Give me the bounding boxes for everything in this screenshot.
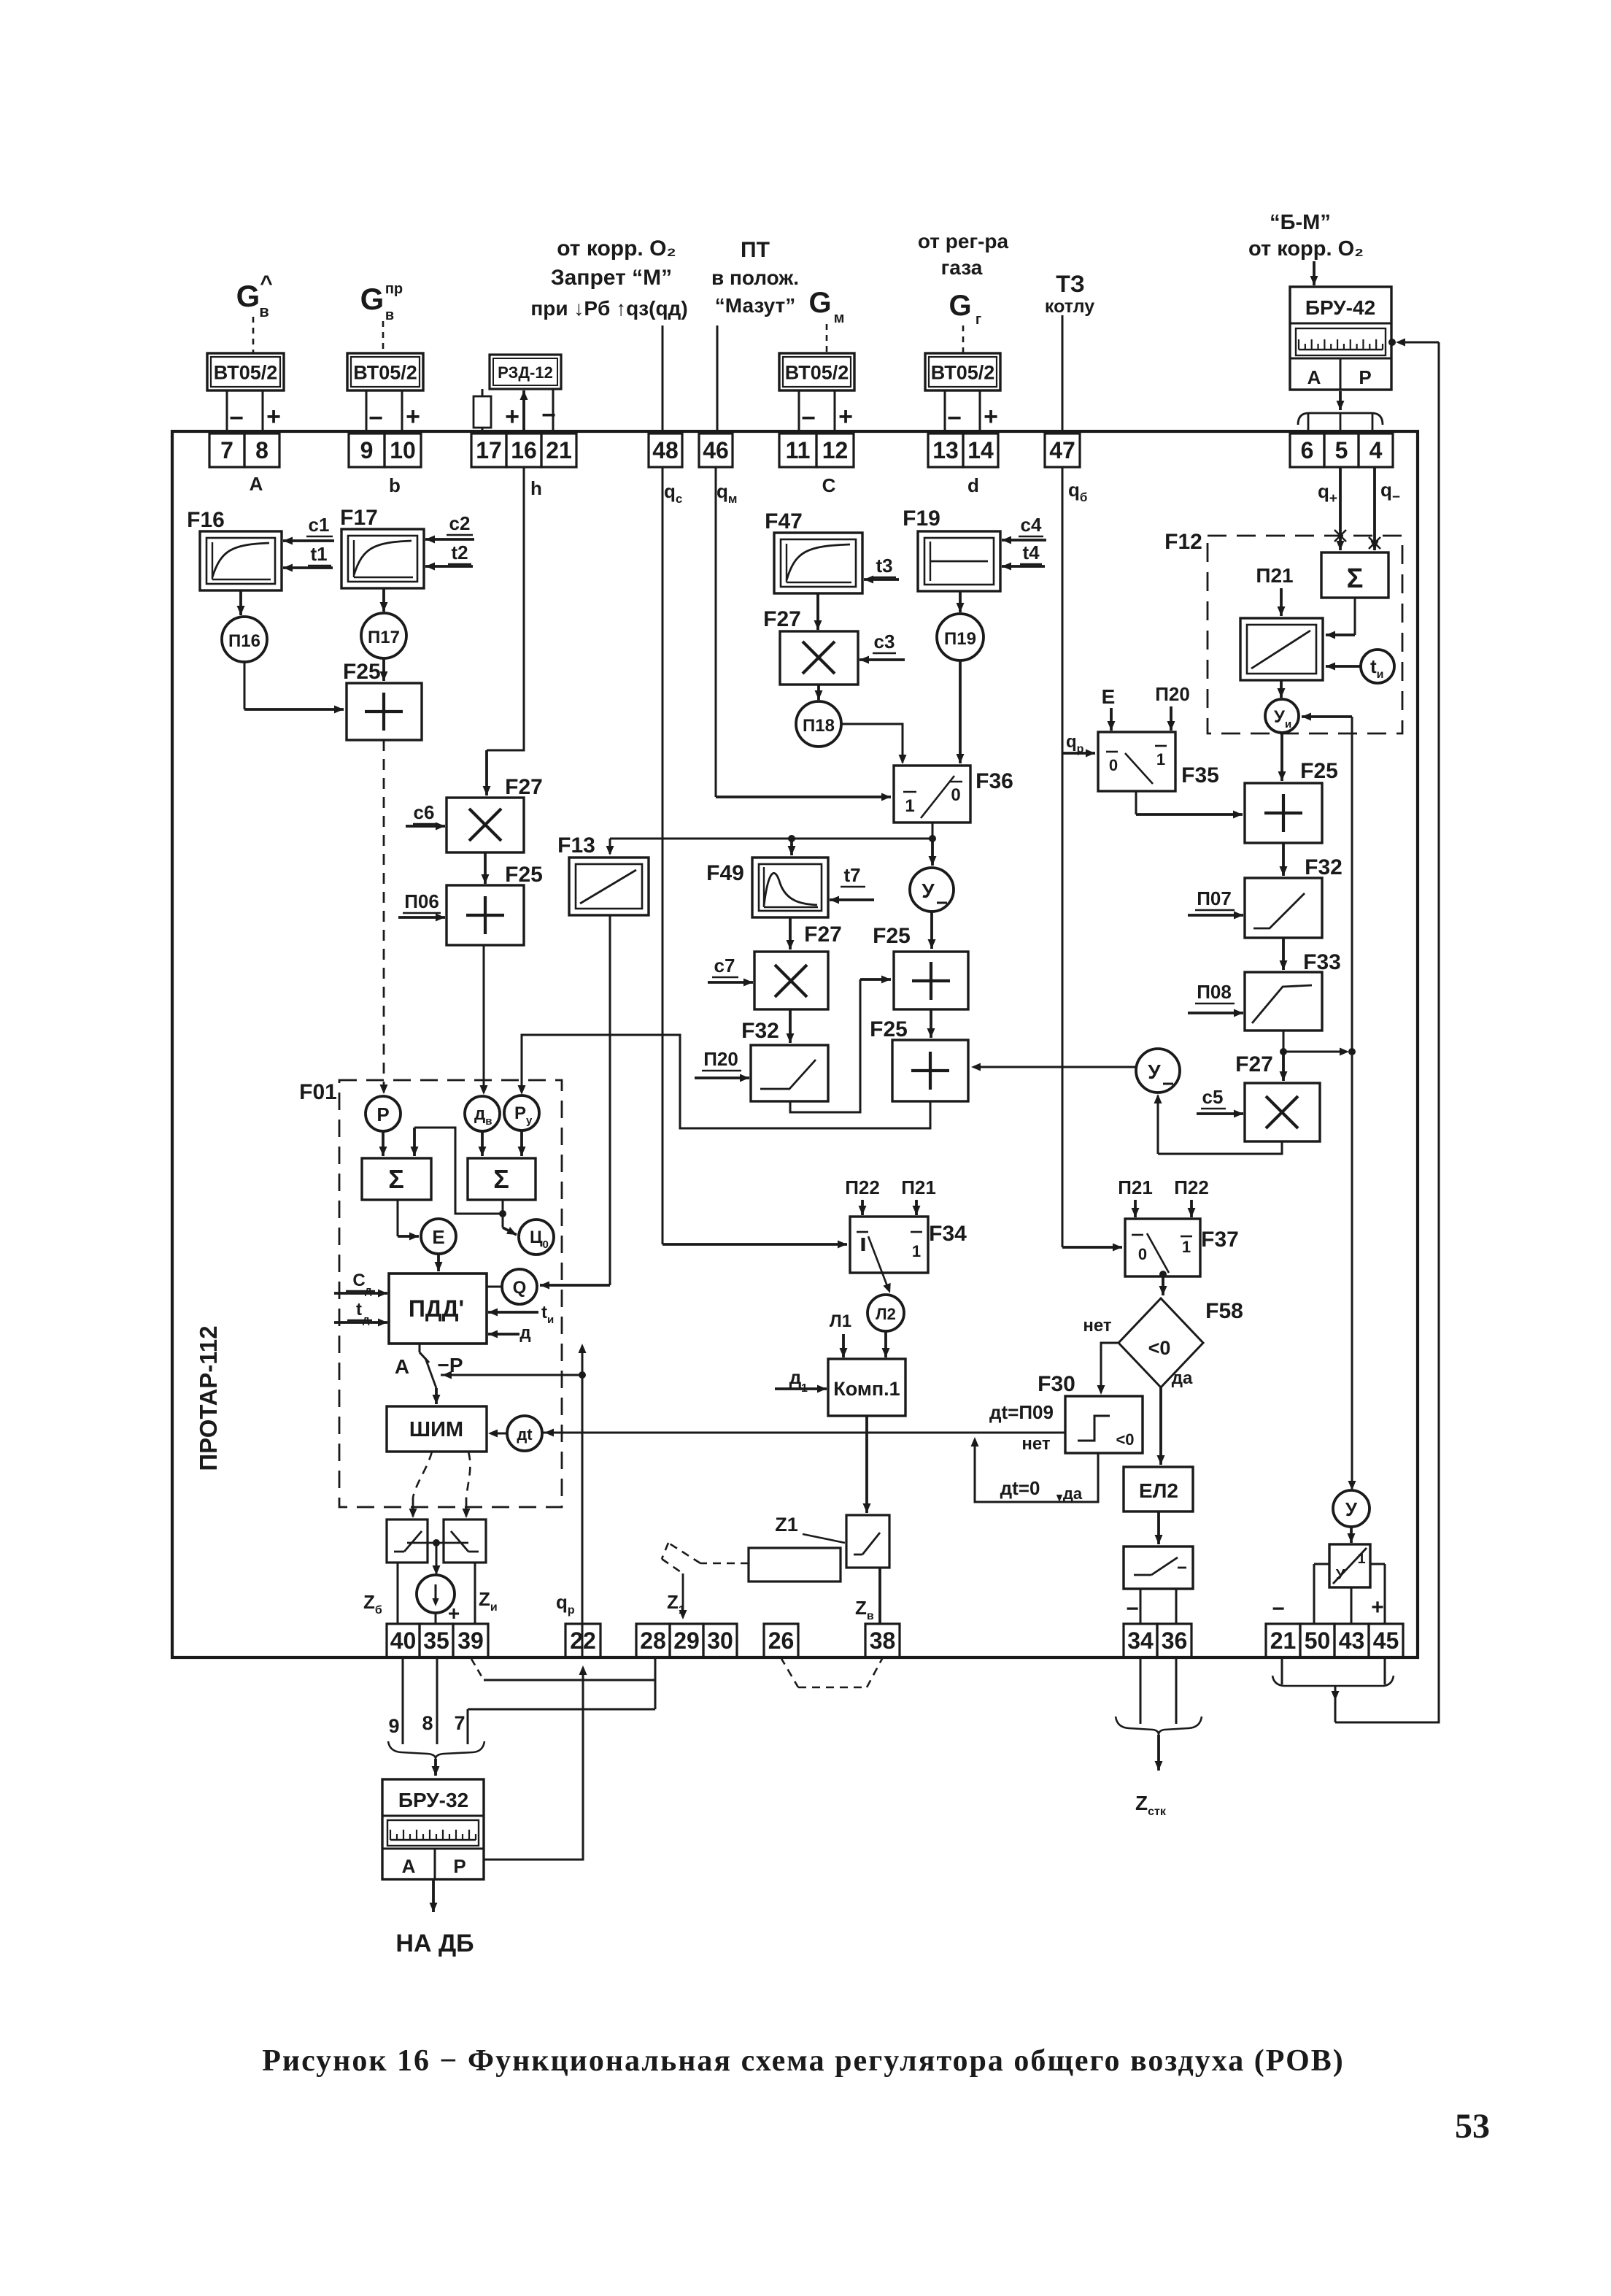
svg-text:8: 8 [255, 437, 268, 463]
svg-text:F13: F13 [557, 833, 595, 858]
svg-text:Σ: Σ [388, 1164, 404, 1194]
svg-text:1: 1 [1357, 1551, 1365, 1567]
svg-text:П17: П17 [368, 628, 400, 647]
svg-text:Z1: Z1 [775, 1514, 798, 1536]
svg-text:д: д [363, 1314, 370, 1326]
svg-text:Е: Е [432, 1226, 444, 1248]
svg-text:F16: F16 [187, 508, 225, 532]
svg-text:46: 46 [703, 437, 729, 463]
svg-text:“Мазут”: “Мазут” [715, 294, 795, 317]
svg-text:28: 28 [640, 1627, 666, 1654]
svg-text:F27: F27 [763, 607, 801, 631]
svg-text:У: У [1336, 1567, 1345, 1583]
svg-text:У: У [922, 879, 935, 902]
svg-text:П19: П19 [944, 629, 976, 649]
svg-text:А: А [402, 1855, 416, 1877]
svg-text:29: 29 [673, 1627, 700, 1654]
svg-text:F27: F27 [804, 922, 842, 947]
svg-text:F25: F25 [343, 660, 381, 684]
svg-text:F34: F34 [929, 1222, 967, 1246]
svg-text:h: h [530, 477, 542, 499]
svg-text:Σ: Σ [493, 1164, 509, 1194]
svg-text:16: 16 [511, 437, 537, 463]
svg-text:ШИМ: ШИМ [409, 1418, 463, 1441]
svg-text:t2: t2 [451, 542, 468, 563]
svg-text:НА ДБ: НА ДБ [395, 1930, 474, 1957]
svg-text:Комп.1: Комп.1 [833, 1378, 900, 1400]
svg-text:53: 53 [1455, 2107, 1490, 2146]
svg-text:П21: П21 [1256, 564, 1293, 587]
svg-text:35: 35 [423, 1627, 449, 1654]
svg-text:c1: c1 [309, 514, 330, 536]
svg-text:1: 1 [1182, 1238, 1191, 1256]
svg-text:G: G [949, 290, 971, 322]
svg-text:43: 43 [1339, 1627, 1365, 1654]
svg-text:−: − [1272, 1597, 1285, 1621]
svg-text:П22: П22 [845, 1176, 880, 1198]
svg-text:А: А [250, 473, 263, 495]
svg-text:Запрет “М”: Запрет “М” [551, 266, 672, 290]
svg-text:c3: c3 [874, 631, 895, 652]
svg-text:от корр. О₂: от корр. О₂ [1248, 237, 1364, 261]
svg-text:С: С [352, 1271, 365, 1290]
svg-text:0: 0 [951, 785, 960, 805]
svg-text:6: 6 [1301, 437, 1314, 463]
svg-text:F35: F35 [1181, 763, 1219, 787]
svg-text:П20: П20 [703, 1048, 738, 1070]
svg-text:+: + [448, 1602, 460, 1625]
svg-text:в: в [259, 302, 269, 320]
svg-text:д: д [519, 1323, 530, 1343]
svg-text:12: 12 [822, 437, 849, 463]
svg-text:−: − [368, 404, 383, 432]
svg-text:9: 9 [360, 437, 374, 463]
svg-text:0: 0 [1138, 1245, 1147, 1263]
svg-text:нет: нет [1083, 1316, 1112, 1336]
svg-text:Р: Р [453, 1855, 465, 1877]
svg-text:А: А [1307, 366, 1321, 388]
svg-text:13: 13 [932, 437, 959, 463]
svg-text:F27: F27 [505, 775, 543, 799]
svg-text:Л2: Л2 [876, 1305, 896, 1323]
svg-text:G: G [808, 287, 831, 319]
svg-text:ПТ: ПТ [741, 238, 770, 262]
svg-text:−: − [1126, 1597, 1139, 1621]
svg-text:F47: F47 [765, 509, 803, 533]
svg-text:У: У [1148, 1060, 1161, 1083]
svg-text:П18: П18 [803, 716, 835, 736]
svg-text:45: 45 [1373, 1627, 1399, 1654]
svg-text:П21: П21 [1118, 1176, 1153, 1198]
svg-text:1: 1 [912, 1242, 921, 1260]
svg-text:д: д [789, 1366, 802, 1388]
svg-text:34: 34 [1127, 1627, 1154, 1654]
svg-text:ПДД': ПДД' [409, 1295, 464, 1322]
svg-text:РЗД-12: РЗД-12 [498, 363, 553, 382]
svg-text:c7: c7 [714, 955, 735, 976]
svg-text:П07: П07 [1197, 887, 1232, 909]
svg-text:А: А [395, 1355, 409, 1378]
svg-text:П22: П22 [1174, 1176, 1209, 1198]
svg-text:дt=П09: дt=П09 [989, 1401, 1054, 1423]
svg-text:8: 8 [422, 1712, 433, 1734]
svg-text:47: 47 [1049, 437, 1075, 463]
svg-text:+: + [406, 403, 420, 431]
svg-text:36: 36 [1162, 1627, 1188, 1654]
svg-text:П08: П08 [1197, 981, 1232, 1003]
svg-text:F25: F25 [505, 863, 543, 887]
svg-text:F25: F25 [1300, 759, 1338, 783]
svg-text:9: 9 [388, 1715, 399, 1737]
svg-text:26: 26 [768, 1627, 795, 1654]
svg-text:Р: Р [376, 1103, 389, 1125]
svg-text:Рисунок 16 − Функциональная сх: Рисунок 16 − Функциональная схема регуля… [262, 2044, 1345, 2078]
svg-text:c6: c6 [414, 801, 435, 823]
svg-text:G: G [360, 282, 385, 316]
svg-text:7: 7 [454, 1712, 465, 1734]
svg-text:ВТ05/2: ВТ05/2 [931, 362, 995, 384]
svg-text:в полож.: в полож. [711, 266, 799, 289]
svg-text:t1: t1 [310, 543, 327, 565]
svg-text:+: + [1371, 1595, 1384, 1619]
svg-text:F01: F01 [299, 1080, 337, 1104]
svg-text:22: 22 [570, 1627, 596, 1654]
svg-text:П20: П20 [1155, 683, 1190, 705]
svg-text:газа: газа [941, 256, 983, 279]
svg-text:G: G [236, 279, 260, 313]
svg-text:Р: Р [1359, 366, 1371, 388]
svg-text:д: д [365, 1284, 372, 1297]
svg-text:0: 0 [1109, 756, 1118, 774]
svg-text:У: У [1345, 1498, 1358, 1520]
svg-text:F30: F30 [1038, 1372, 1075, 1396]
svg-text:г: г [976, 312, 981, 328]
svg-text:ТЗ: ТЗ [1056, 271, 1085, 297]
svg-text:F49: F49 [706, 861, 744, 885]
svg-text:c2: c2 [449, 512, 471, 534]
svg-text:50: 50 [1305, 1627, 1331, 1654]
svg-text:4: 4 [1369, 437, 1383, 463]
svg-text:F27: F27 [1235, 1052, 1273, 1076]
svg-text:1: 1 [905, 796, 914, 816]
svg-text:от рег-ра: от рег-ра [918, 230, 1009, 253]
svg-text:П06: П06 [404, 890, 439, 912]
svg-text:48: 48 [652, 437, 679, 463]
svg-text:+: + [984, 403, 998, 431]
svg-text:F32: F32 [741, 1019, 779, 1043]
svg-text:<0: <0 [1148, 1337, 1171, 1359]
svg-text:+: + [266, 403, 281, 431]
svg-text:F36: F36 [976, 769, 1013, 793]
svg-text:ПРОТАР-112: ПРОТАР-112 [195, 1325, 222, 1471]
svg-text:пр: пр [385, 281, 403, 297]
svg-text:при ↓Рб ↑qз(qд): при ↓Рб ↑qз(qд) [530, 297, 687, 320]
svg-text:21: 21 [546, 437, 572, 463]
svg-text:t7: t7 [843, 864, 860, 886]
svg-text:П16: П16 [228, 631, 260, 651]
svg-text:котлу: котлу [1045, 296, 1094, 317]
svg-text:40: 40 [390, 1627, 417, 1654]
svg-text:<0: <0 [1116, 1430, 1134, 1449]
svg-text:С: С [822, 474, 836, 496]
svg-text:“Б-М”: “Б-М” [1270, 211, 1331, 234]
svg-text:t4: t4 [1022, 542, 1040, 563]
svg-text:F25: F25 [873, 924, 911, 948]
svg-text:39: 39 [457, 1627, 484, 1654]
svg-text:F33: F33 [1303, 950, 1341, 974]
svg-text:нет: нет [1021, 1434, 1051, 1454]
svg-text:14: 14 [967, 437, 994, 463]
svg-text:21: 21 [1270, 1627, 1297, 1654]
svg-text:t3: t3 [876, 555, 892, 577]
svg-text:в: в [385, 307, 394, 323]
svg-text:F32: F32 [1305, 855, 1342, 879]
svg-text:F12: F12 [1164, 530, 1202, 554]
svg-text:ВТ05/2: ВТ05/2 [785, 362, 849, 384]
svg-text:Σ: Σ [1347, 563, 1364, 594]
svg-text:F17: F17 [340, 506, 378, 530]
svg-text:ВТ05/2: ВТ05/2 [214, 362, 278, 384]
svg-text:F37: F37 [1201, 1228, 1239, 1252]
svg-text:F19: F19 [903, 506, 940, 531]
svg-text:t: t [356, 1300, 362, 1320]
svg-text:c5: c5 [1202, 1086, 1224, 1108]
svg-text:17: 17 [476, 437, 502, 463]
svg-text:b: b [389, 474, 401, 496]
svg-text:F58: F58 [1205, 1299, 1243, 1323]
svg-text:7: 7 [220, 437, 233, 463]
svg-text:от корр. О₂: от корр. О₂ [557, 236, 676, 261]
svg-text:ЕЛ2: ЕЛ2 [1139, 1479, 1178, 1502]
svg-text:да: да [1172, 1368, 1193, 1388]
svg-text:П21: П21 [901, 1176, 936, 1198]
svg-text:дt=0: дt=0 [1000, 1477, 1040, 1499]
svg-text:38: 38 [870, 1627, 896, 1654]
svg-text:+: + [505, 403, 519, 431]
svg-text:ВТ05/2: ВТ05/2 [353, 362, 417, 384]
svg-text:1: 1 [1156, 750, 1165, 768]
svg-text:5: 5 [1335, 437, 1348, 463]
svg-text:да: да [1063, 1484, 1083, 1503]
svg-text:c4: c4 [1021, 514, 1042, 536]
svg-text:^: ^ [260, 271, 273, 296]
svg-text:10: 10 [390, 437, 416, 463]
svg-text:БРУ-32: БРУ-32 [398, 1789, 468, 1811]
svg-text:−: − [801, 404, 816, 432]
svg-text:БРУ-42: БРУ-42 [1305, 296, 1375, 319]
svg-text:−: − [229, 404, 244, 432]
svg-text:дt: дt [517, 1425, 533, 1444]
svg-text:F25: F25 [870, 1017, 908, 1041]
svg-text:−: − [947, 404, 962, 432]
svg-text:d: d [967, 474, 979, 496]
svg-text:30: 30 [707, 1627, 733, 1654]
svg-text:11: 11 [786, 437, 811, 463]
svg-text:Е: Е [1102, 685, 1116, 708]
svg-text:м: м [834, 310, 845, 326]
svg-text:+: + [838, 403, 853, 431]
svg-text:Q: Q [513, 1278, 527, 1298]
svg-text:Л1: Л1 [830, 1311, 851, 1331]
